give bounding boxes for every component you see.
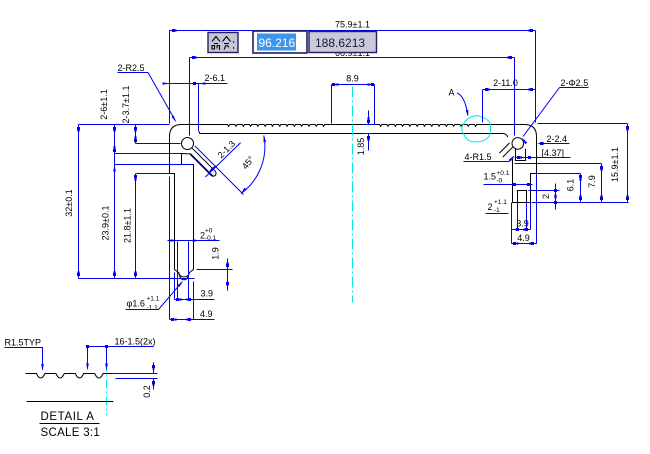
dimension 7.9 — [601, 164, 603, 203]
dimension 4.9 left — [170, 319, 215, 321]
svg-text:φ1.6: φ1.6 — [127, 299, 145, 309]
svg-text:2-11.0: 2-11.0 — [493, 78, 518, 88]
svg-text:2-6±1.1: 2-6±1.1 — [99, 89, 109, 119]
svg-text:1.9: 1.9 — [211, 247, 221, 260]
svg-text:R1.5TYP: R1.5TYP — [5, 338, 42, 348]
profile: top right end, corner R2.5 — [479, 125, 537, 137]
svg-text:7.9: 7.9 — [587, 175, 597, 188]
svg-text:+0.1: +0.1 — [497, 170, 510, 177]
detail serration wave — [26, 374, 154, 379]
command prompt label box (ming ling:) — [208, 33, 238, 53]
svg-text:-0: -0 — [497, 178, 503, 185]
svg-text:+0: +0 — [205, 228, 213, 235]
svg-text:2-2.4: 2-2.4 — [547, 134, 568, 144]
left leg slot extension lines — [178, 242, 189, 269]
dimension 15.9+-1.1 — [627, 124, 629, 203]
dimension 2 +0/-0.1 — [168, 240, 220, 242]
dimension 3.9 right — [512, 229, 531, 231]
dimension 1.5 +0.1/-0 — [484, 184, 533, 186]
dimension 32+-0.1 — [78, 125, 80, 279]
profile: serrated top surface zone 2 — [375, 125, 479, 127]
profile: top bar outer line, left corner R2.5 — [170, 125, 223, 137]
svg-text:2-Φ2.5: 2-Φ2.5 — [561, 78, 589, 88]
svg-text:-1: -1 — [494, 207, 500, 214]
dimension 2-6+-1.1 — [114, 125, 116, 279]
dimension 2-6.1 — [164, 84, 228, 132]
right bottom extension lines — [512, 174, 537, 244]
svg-text:SCALE 3:1: SCALE 3:1 — [41, 427, 101, 439]
dimension 0.2 tooth depth — [113, 363, 158, 390]
svg-text:4.9: 4.9 — [517, 233, 530, 243]
svg-text:32±0.1: 32±0.1 — [64, 189, 74, 216]
dimension 8.9 — [332, 85, 375, 125]
svg-text:+1.1: +1.1 — [494, 199, 507, 206]
left screw hole phi2.5 — [199, 132, 201, 134]
svg-text:15.9±1.1: 15.9±1.1 — [610, 147, 620, 182]
centerline main view — [352, 87, 354, 303]
svg-text:96.216: 96.216 — [259, 36, 296, 50]
left leg tip drill arc — [179, 273, 189, 280]
svg-text:[4.37]: [4.37] — [542, 148, 565, 158]
profile: serrated top surface zone 1 — [223, 125, 332, 127]
svg-text:-0.1: -0.1 — [205, 235, 217, 242]
profile: top flat middle zone — [332, 124, 375, 126]
svg-text:188.6213: 188.6213 — [315, 36, 365, 50]
dimension 1.9 — [197, 259, 233, 291]
left bottom extension lines — [170, 177, 194, 320]
svg-text:1.5: 1.5 — [484, 172, 497, 182]
command input box with highlighted 96.216 — [253, 31, 307, 53]
revision cloud around detail A zone — [462, 116, 491, 142]
dimension 75.9+-1.1 — [170, 31, 536, 124]
right leg outline — [513, 136, 537, 203]
svg-text:2-3.7±1.1: 2-3.7±1.1 — [121, 86, 131, 124]
left leg outline — [170, 136, 194, 278]
svg-text:1.85: 1.85 — [356, 138, 366, 156]
dimension 21.8+-1.1 — [134, 174, 137, 181]
svg-text:4-R1.5: 4-R1.5 — [465, 152, 492, 162]
svg-text:23.9±0.1: 23.9±0.1 — [101, 206, 111, 241]
dimension 4.9 right — [512, 243, 537, 245]
svg-text:0.2: 0.2 — [142, 385, 152, 398]
dimension 66.9+-1.1 (top hidden behind command boxes) — [190, 58, 515, 136]
dimension 6.1 — [580, 174, 582, 203]
right 45deg slot lines — [503, 147, 513, 157]
right extension lines — [515, 124, 629, 203]
svg-text:2: 2 — [541, 194, 551, 199]
svg-text:2-6.1: 2-6.1 — [205, 73, 226, 83]
svg-text:2-R2.5: 2-R2.5 — [118, 63, 145, 73]
right cavity inner corner — [504, 134, 508, 138]
svg-text:DETAIL A: DETAIL A — [41, 411, 95, 423]
svg-text:-1.1: -1.1 — [147, 305, 159, 312]
dimension 2-11.0 — [483, 90, 536, 123]
svg-text:3.9: 3.9 — [201, 289, 214, 299]
svg-text:16-1.5(2x): 16-1.5(2x) — [115, 337, 156, 347]
command value box 188.6213 — [309, 32, 377, 53]
svg-text:4.9: 4.9 — [200, 309, 213, 319]
centerline detail view — [106, 346, 108, 416]
dimension 45 degrees arc — [241, 136, 265, 194]
svg-text:3.9: 3.9 — [516, 219, 529, 229]
svg-text:8.9: 8.9 — [346, 74, 359, 84]
dimension 1.85 — [363, 111, 376, 151]
dimension 2-1.3 slot width — [190, 143, 243, 195]
detail section bottom line — [27, 401, 114, 403]
left 45deg slot — [190, 148, 216, 176]
svg-text:A: A — [449, 88, 455, 98]
svg-text:6.1: 6.1 — [566, 179, 576, 192]
right leg bottom slot — [518, 191, 527, 203]
svg-text:45°: 45° — [240, 154, 257, 171]
dimension 2 right — [529, 184, 560, 210]
right keyhole pocket below hole — [516, 149, 526, 161]
left extension lines — [79, 125, 195, 279]
svg-text:21.8±1.1: 21.8±1.1 — [123, 208, 133, 243]
svg-text:75.9±1.1: 75.9±1.1 — [335, 20, 370, 30]
right screw hole phi2.5 — [512, 138, 524, 150]
dimension 2-3.7+-1.1 — [135, 125, 137, 279]
profile: inner ceiling line — [200, 133, 504, 135]
dimension 3.9 left — [175, 299, 215, 301]
dimension 23.9+-0.1 — [113, 165, 116, 172]
svg-text:+1.1: +1.1 — [147, 296, 160, 303]
svg-text:2: 2 — [488, 202, 493, 212]
